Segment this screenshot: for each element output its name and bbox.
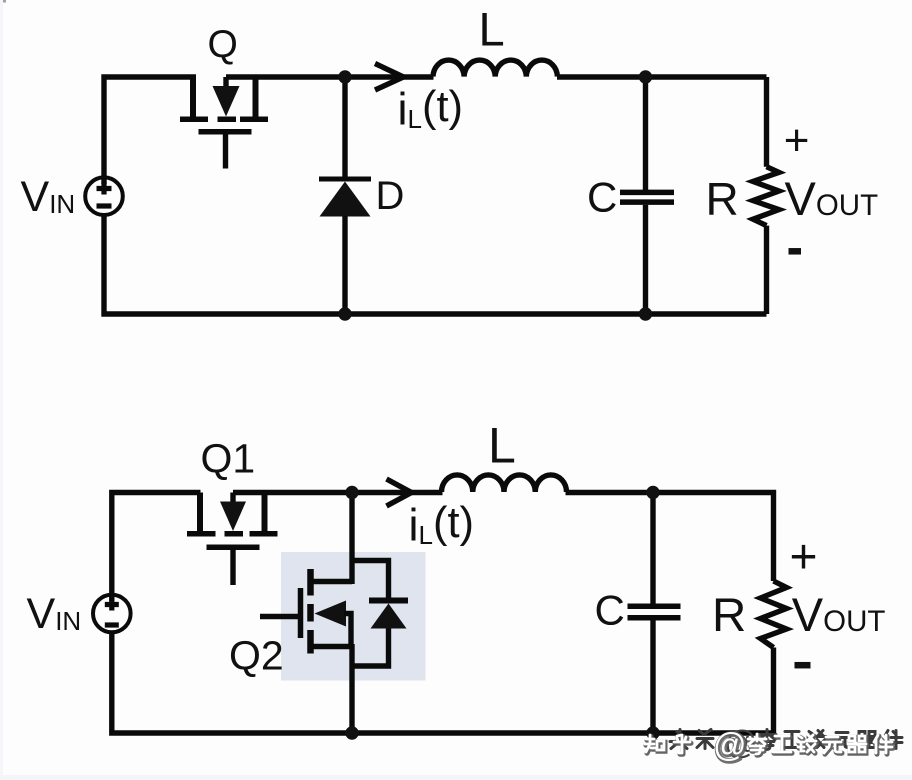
transistor Q right stub bbox=[253, 77, 259, 119]
svg-text:L: L bbox=[488, 418, 516, 474]
svg-text:R: R bbox=[706, 173, 739, 225]
transistor Q2 drain lead bbox=[308, 579, 352, 584]
resistor R1 zigzag bbox=[753, 167, 779, 226]
transistor Q1 middle contact bar bbox=[225, 531, 244, 537]
glyph 工 bbox=[0, 0, 1, 1]
transistor Q1 gate lead bbox=[230, 550, 235, 585]
body diode triangle bbox=[371, 604, 407, 629]
wire: top rail right segment + right rail upper bbox=[566, 493, 774, 582]
glyph 乎 bbox=[0, 0, 1, 1]
transistor Q2 bottom contact dash bbox=[307, 630, 314, 654]
node: diode top junction bbox=[338, 70, 351, 83]
capacitor C1 top plate bbox=[620, 190, 674, 196]
svg-text:+: + bbox=[784, 116, 810, 165]
transistor Q right contact bar bbox=[240, 117, 268, 123]
wire: VIN V2 bottom lead + bottom rail bbox=[112, 632, 774, 733]
node: diode bottom junction bbox=[338, 307, 351, 320]
svg-text:D: D bbox=[376, 174, 405, 218]
transistor Q2 bulk tail bbox=[344, 614, 351, 647]
source V1 minus mark bbox=[97, 203, 112, 208]
node: switch junction bottom (circuit 2) bbox=[345, 726, 358, 739]
current arrow iL(t) chevron bbox=[375, 64, 404, 91]
label minus (circuit 1) bbox=[789, 248, 802, 255]
transistor Q arrow (down) bbox=[213, 86, 240, 117]
transistor Q1 right contact bar bbox=[250, 531, 278, 537]
transistor Q2 middle contact dash bbox=[307, 604, 314, 622]
wire: body diode loop lower bbox=[352, 629, 389, 667]
svg-text:@: @ bbox=[713, 726, 747, 763]
diode D triangle bbox=[320, 182, 371, 217]
glyph 知 bbox=[0, 0, 1, 1]
svg-text:Q1: Q1 bbox=[201, 436, 256, 482]
wire: body diode loop upper bbox=[352, 561, 389, 599]
source V1 (VIN) circle bbox=[85, 177, 123, 215]
corner smudge bbox=[0, 0, 6, 3]
glyph 谈 bbox=[0, 0, 1, 1]
transistor Q2 source lead bbox=[308, 644, 352, 649]
capacitor C2 top plate bbox=[628, 604, 681, 610]
glyph 头 bbox=[0, 0, 1, 1]
node: capacitor C2 top junction bbox=[646, 486, 659, 499]
inductor L2 humps bbox=[442, 475, 567, 492]
transistor Q2 bulk arrow (left) bbox=[315, 601, 347, 627]
node: switch junction top (circuit 2) bbox=[345, 486, 358, 499]
transistor Q1 right stub bbox=[262, 493, 268, 532]
svg-text:C: C bbox=[595, 587, 625, 634]
transistor Q gate lead bbox=[223, 135, 228, 169]
wire: right rail upper (to resistor R1) bbox=[764, 77, 769, 167]
glyph 件 bbox=[0, 0, 1, 1]
body diode cathode bar bbox=[369, 598, 408, 604]
source V2 plus mark bbox=[105, 598, 119, 611]
wire: switch-node branch vertical lower bbox=[349, 644, 354, 733]
glyph 条 bbox=[0, 0, 1, 1]
transistor Q1 middle stub bbox=[230, 493, 235, 503]
wire: top rail middle segment (Q to inductor) bbox=[226, 74, 434, 79]
label minus (circuit 2) bbox=[795, 662, 811, 669]
left edge tint bbox=[0, 0, 3, 780]
transistor Q2 gate bar bbox=[298, 588, 304, 638]
wire: VIN V1 top lead + top rail left segment bbox=[104, 77, 196, 184]
watermark dark text: 头条 @李工谈元器件 bbox=[670, 730, 902, 750]
svg-text:iL(t): iL(t) bbox=[409, 499, 475, 551]
wire: right rail lower (R1 to bottom) bbox=[764, 226, 769, 314]
diode D cathode bar bbox=[319, 177, 371, 182]
source V2 minus mark bbox=[105, 622, 119, 627]
glyph 李 bbox=[0, 0, 1, 1]
wire: VIN V1 bottom lead + bottom rail bbox=[104, 214, 767, 314]
node: capacitor C2 bottom junction bbox=[646, 726, 659, 739]
wire: capacitor C1 upper lead bbox=[643, 77, 648, 190]
capacitor C1 bottom plate bbox=[620, 199, 674, 205]
transistor Q left contact bar bbox=[180, 117, 208, 123]
wire: top rail middle segment (Q1 to inductor) bbox=[233, 490, 443, 495]
source V2 (VIN) circle bbox=[93, 595, 131, 633]
transistor Q middle stub bbox=[223, 77, 228, 87]
wire: capacitor C2 lower lead bbox=[650, 621, 655, 734]
node: capacitor C1 bottom junction bbox=[639, 307, 652, 320]
wire: switch-node branch vertical upper (to Q2 drain) bbox=[349, 493, 354, 585]
wire: diode branch lower bbox=[342, 216, 347, 314]
transistor Q1 arrow (down) bbox=[220, 502, 246, 532]
source V1 plus mark bbox=[97, 182, 112, 195]
transistor Q1 left stub bbox=[197, 493, 203, 532]
wire: diode branch upper bbox=[342, 77, 347, 177]
wire: right rail lower (R2 to bottom) bbox=[771, 648, 776, 734]
watermark white text shadow: 知乎 @李工谈元器件 bbox=[646, 735, 893, 755]
transistor Q1 left contact bar bbox=[187, 531, 216, 537]
svg-text:Q: Q bbox=[208, 23, 238, 66]
svg-text:Q2: Q2 bbox=[229, 633, 284, 679]
svg-text:C: C bbox=[587, 174, 617, 221]
wire: top rail right segment (inductor to right corner) bbox=[557, 74, 767, 79]
capacitor C2 bottom plate bbox=[628, 615, 681, 621]
svg-text:R: R bbox=[712, 589, 746, 642]
resistor R2 zigzag bbox=[761, 581, 787, 648]
transistor Q left stub bbox=[190, 77, 196, 119]
node: capacitor C1 top junction bbox=[639, 70, 652, 83]
wire: capacitor C2 upper lead bbox=[650, 493, 655, 605]
watermark white text: 知乎 @李工谈元器件 bbox=[645, 734, 892, 754]
transistor Q gate bar bbox=[199, 129, 252, 135]
transistor Q1 gate bar bbox=[207, 545, 260, 551]
glyph 器 bbox=[0, 0, 1, 1]
Q2 highlight box bbox=[281, 552, 426, 681]
transistor Q2 gate lead bbox=[260, 614, 298, 619]
wire: capacitor C1 lower lead bbox=[643, 205, 648, 314]
glyph 元 bbox=[0, 0, 1, 1]
inductor L1 humps bbox=[433, 60, 557, 76]
transistor Q2 top contact dash bbox=[307, 569, 314, 596]
bottom edge tint bbox=[0, 775, 912, 780]
svg-text:L: L bbox=[479, 3, 505, 56]
current arrow iL(t) chevron (circuit 2) bbox=[387, 479, 412, 506]
svg-text:iL(t): iL(t) bbox=[398, 83, 464, 135]
svg-text:+: + bbox=[790, 531, 818, 584]
wire: VIN V2 top lead + top rail left segment bbox=[112, 493, 201, 602]
transistor Q middle contact bar bbox=[218, 117, 237, 123]
